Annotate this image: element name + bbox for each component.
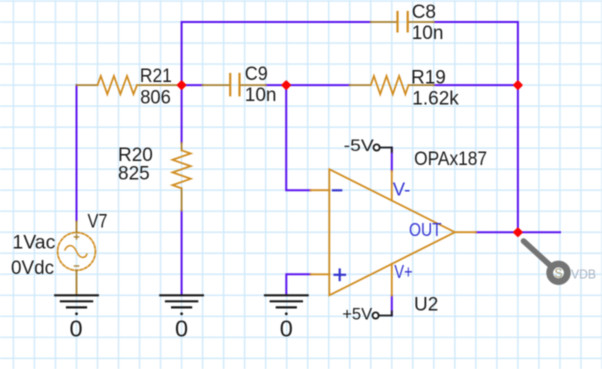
svg-text:-5V: -5V xyxy=(344,136,375,155)
wire: V- pin stub purple xyxy=(391,148,393,172)
svg-text:+5V: +5V xyxy=(342,305,373,324)
op-amp V+ pin xyxy=(391,264,393,296)
svg-text:1.62k: 1.62k xyxy=(412,89,459,110)
capacitor C9 xyxy=(203,84,266,86)
wire: node B down to inverting input xyxy=(286,85,311,190)
ground 0 under V7 xyxy=(55,295,98,307)
svg-text:10n: 10n xyxy=(245,85,277,106)
svg-text:U2: U2 xyxy=(414,294,438,315)
svg-text:V7: V7 xyxy=(88,212,108,233)
wire: V7 top to R21 corner xyxy=(76,85,78,221)
wire: R19 to right rail xyxy=(434,84,518,86)
ground 0 under R20 xyxy=(160,295,203,307)
svg-text:0: 0 xyxy=(69,315,82,341)
junction node B (C9/R19/inverting) xyxy=(281,80,291,90)
wire: op-amp output to VDB node and right xyxy=(476,231,560,233)
svg-text:C9: C9 xyxy=(245,64,268,85)
svg-text:S: S xyxy=(554,266,562,280)
resistor R19 xyxy=(350,84,434,86)
wire: non-inverting input to ground xyxy=(286,274,310,295)
VDB probe xyxy=(524,241,597,282)
wire: V+ pin stub purple xyxy=(391,296,393,316)
+5V power stub xyxy=(373,312,392,319)
svg-text:0Vdc: 0Vdc xyxy=(11,258,54,279)
source V7 xyxy=(58,222,96,296)
wire: node A down to R20 xyxy=(181,85,183,143)
junction right rail at R19 xyxy=(513,80,523,90)
wire: top right segment and right rail down xyxy=(434,22,518,232)
svg-text:VDB: VDB xyxy=(571,267,596,282)
svg-text:806: 806 xyxy=(140,87,171,108)
resistor R20 xyxy=(181,143,183,211)
op-amp U2 body xyxy=(329,169,455,295)
capacitor C8 xyxy=(371,21,434,23)
svg-text:OUT: OUT xyxy=(409,220,442,240)
-5V power stub xyxy=(374,144,392,152)
resistor R21 xyxy=(77,84,182,86)
junction output node xyxy=(513,227,523,237)
svg-text:825: 825 xyxy=(118,164,150,185)
wire: top feedback from node A up and across to right rail xyxy=(182,22,371,85)
op-amp plus symbol xyxy=(335,270,346,281)
op-amp V- pin xyxy=(391,171,393,201)
svg-text:0: 0 xyxy=(175,315,188,341)
svg-text:C8: C8 xyxy=(412,2,436,23)
svg-text:10n: 10n xyxy=(412,23,444,44)
svg-text:V-: V- xyxy=(393,179,411,199)
svg-text:V+: V+ xyxy=(394,262,413,282)
svg-text:R19: R19 xyxy=(411,68,446,89)
wire: R20 down to ground xyxy=(181,211,183,296)
op-amp OUT pin xyxy=(455,231,476,233)
svg-text:R21: R21 xyxy=(140,66,172,87)
wire: C9 to node B xyxy=(266,84,287,86)
op-amp input pin minus xyxy=(311,189,330,191)
junction node A (R21/C9/R20) xyxy=(176,80,186,90)
svg-text:1Vac: 1Vac xyxy=(12,233,55,254)
wire: node B to R19 xyxy=(286,84,350,86)
op-amp minus symbol xyxy=(333,189,341,191)
svg-text:OPAx187: OPAx187 xyxy=(414,149,487,170)
wire: node A to C9 xyxy=(182,84,203,86)
svg-text:0: 0 xyxy=(280,315,293,341)
ground 0 at op-amp plus input xyxy=(265,295,308,307)
op-amp input pin plus xyxy=(311,273,330,275)
